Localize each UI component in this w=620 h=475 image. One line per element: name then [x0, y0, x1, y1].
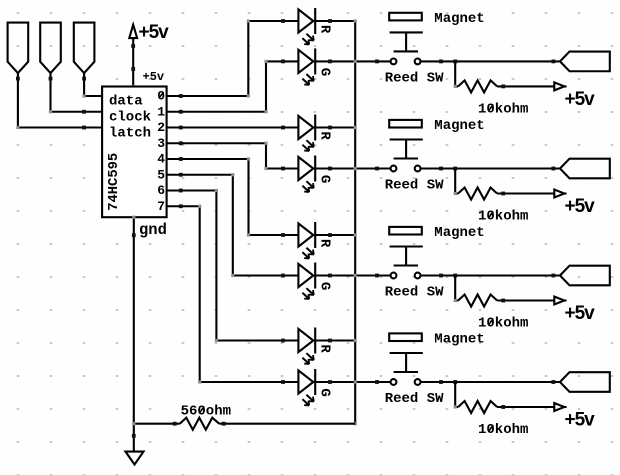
wire +5v supply to IC: [132, 26, 134, 87]
svg-text:Reed SW: Reed SW: [385, 285, 444, 301]
corner node: [264, 60, 267, 63]
connector P1 (output): [560, 52, 610, 72]
svg-text:6: 6: [157, 183, 165, 198]
junction resistor R4 lead: [501, 405, 505, 409]
junction pullup tap 2: [453, 167, 457, 171]
junction J1 lead: [16, 77, 20, 81]
svg-text:10kohm: 10kohm: [478, 101, 528, 117]
svg-text:10kohm: 10kohm: [478, 422, 528, 438]
wire LED cathode row 5: [315, 274, 390, 276]
LED D1R (R LED): [298, 8, 332, 45]
svg-text:5: 5: [157, 167, 165, 182]
junction pin 3 stub: [179, 141, 183, 145]
svg-text:G: G: [317, 68, 333, 76]
svg-text:Magnet: Magnet: [434, 332, 484, 348]
wire pin6 to LED R4: [167, 191, 299, 341]
wire LED cathode row 6: [315, 339, 355, 341]
junction connector lead 2: [552, 167, 556, 171]
connector J2 (input header pin): [40, 23, 61, 74]
svg-text:Reed SW: Reed SW: [385, 178, 444, 194]
svg-text:10kohm: 10kohm: [478, 209, 528, 225]
wire LED cathode row 3: [315, 167, 390, 169]
reed switch SW4 actuator: [390, 353, 423, 372]
svg-text:+5v: +5v: [143, 70, 165, 84]
LED D3R (R LED): [298, 222, 332, 259]
corner node data wire: [83, 94, 86, 97]
resistor R2 10kohm: [458, 188, 497, 200]
node bus row 3: [354, 167, 357, 170]
wire pullup branch 4: [455, 382, 458, 407]
junction 560 left lead: [173, 422, 177, 426]
magnet symbol M3: [389, 227, 422, 235]
svg-text:74HC595: 74HC595: [106, 153, 122, 211]
corner node: [231, 173, 234, 176]
slash of zero in 560ohm: [200, 407, 205, 414]
svg-text:560ohm: 560ohm: [181, 404, 231, 420]
svg-text:data: data: [109, 94, 143, 110]
wire reed SW3 to connector: [421, 274, 561, 276]
junction LED anode lead 3: [281, 167, 285, 171]
wire LED cathode row 2: [315, 126, 355, 128]
junction connector lead 3: [552, 274, 556, 278]
node bus row 1: [354, 60, 357, 63]
node +5v at IC top: [132, 85, 135, 88]
corner node: [264, 110, 267, 113]
node bus row 6: [354, 339, 357, 342]
junction pin 0 stub: [179, 94, 183, 98]
svg-text:2: 2: [157, 120, 165, 135]
wire pin0 to LED R1: [167, 21, 299, 96]
junction on gnd wire: [132, 434, 136, 438]
junction pin 4 stub: [179, 157, 183, 161]
corner node: [215, 189, 218, 192]
wire pullup branch 2: [455, 169, 458, 194]
corner node clock wire: [49, 110, 52, 113]
svg-text:Magnet: Magnet: [434, 225, 484, 241]
corner node: [247, 157, 250, 160]
junction LED anode lead 2: [281, 126, 285, 130]
wire gnd run to bus: [134, 423, 180, 425]
junction pin 5 stub: [179, 173, 183, 177]
wire LED bus (cathode rail): [354, 21, 356, 424]
corner pullup branch 4: [454, 405, 457, 408]
wire resistor R4 to +5v: [497, 406, 566, 408]
junction LED anode lead 0: [281, 19, 285, 23]
junction 560 right lead: [222, 422, 226, 426]
magnet symbol M4: [389, 333, 422, 341]
junction LED anode lead 1: [281, 60, 285, 64]
junction LED cathode lead 7: [328, 380, 332, 384]
wire pullup branch 3: [455, 276, 458, 301]
LED D4R (R LED): [298, 328, 332, 365]
node gnd at IC bottom: [132, 216, 135, 219]
ground symbol: [126, 452, 144, 465]
corner node: [198, 380, 201, 383]
junction pullup tap 1: [453, 60, 457, 64]
junction LED cathode lead 1: [328, 60, 332, 64]
slash of zero in 10kohm 3: [489, 319, 494, 326]
connector P2 (output): [560, 159, 610, 179]
svg-text:4: 4: [157, 152, 165, 167]
svg-text:Magnet: Magnet: [434, 11, 484, 27]
svg-text:+5v: +5v: [565, 89, 596, 110]
junction LED cathode lead 3: [328, 167, 332, 171]
svg-text:+5v: +5v: [139, 22, 170, 43]
junction LED cathode lead 6: [328, 339, 332, 343]
slash of zero in 10kohm 2: [489, 212, 494, 219]
junction LED anode lead 6: [281, 339, 285, 343]
junction connector lead 4: [552, 380, 556, 384]
corner node: [247, 94, 250, 97]
node bus row 5: [354, 274, 357, 277]
power symbol +5v arrow 2: [554, 190, 564, 198]
junction LED cathode lead 4: [328, 233, 332, 237]
svg-text:+5v: +5v: [565, 410, 596, 431]
wire pullup branch 1: [455, 61, 458, 86]
junction reed left lead 1: [375, 60, 379, 64]
corner node: [198, 205, 201, 208]
junction LED anode lead 7: [281, 380, 285, 384]
wire pin7 to LED G4: [167, 206, 299, 382]
junction reed left lead 4: [375, 380, 379, 384]
magnet symbol M1: [389, 13, 422, 21]
node bus bottom corner: [354, 422, 357, 425]
reed switch SW3 contacts: [391, 273, 421, 279]
LED D1G (G LED): [298, 48, 332, 85]
connector P4 (output): [560, 372, 610, 392]
wire LED cathode row 7: [315, 381, 390, 383]
svg-text:G: G: [317, 175, 333, 183]
junction pin 6 stub: [179, 189, 183, 193]
junction pullup tap 3: [453, 274, 457, 278]
corner node: [247, 233, 250, 236]
corner node: [264, 142, 267, 145]
corner gnd run: [132, 422, 135, 425]
node bus row 2: [354, 126, 357, 129]
junction pullup tap 4: [453, 380, 457, 384]
wire reed SW4 to connector: [421, 381, 561, 383]
resistor R1 10kohm: [458, 80, 497, 92]
svg-text:Reed SW: Reed SW: [385, 70, 444, 86]
wire reed SW2 to connector: [421, 167, 561, 169]
corner node: [231, 274, 234, 277]
junction reed right lead 2: [439, 167, 443, 171]
junction J2 lead: [49, 77, 53, 81]
power symbol +5v arrow 4: [554, 403, 564, 411]
wire clock: J2 to IC clock pin: [51, 73, 103, 112]
wire pin4 to LED R3: [167, 159, 299, 235]
wire pin3 to LED G2: [167, 143, 299, 168]
junction pin 2 stub: [179, 126, 183, 130]
connector P3 (output): [560, 266, 610, 286]
junction resistor R3 lead: [501, 299, 505, 303]
svg-text:latch: latch: [109, 126, 151, 142]
svg-text:G: G: [317, 388, 333, 396]
wire pin5 to LED G3: [167, 175, 299, 276]
magnet symbol M2: [389, 120, 422, 128]
junction pin 7 stub: [179, 204, 183, 208]
wire LED cathode row 0: [315, 20, 355, 22]
svg-text:G: G: [317, 282, 333, 290]
junction pin 1 stub: [179, 110, 183, 114]
LED D2R (R LED): [298, 115, 332, 152]
corner node: [247, 19, 250, 22]
corner pullup branch 2: [454, 192, 457, 195]
svg-text:gnd: gnd: [139, 221, 167, 239]
resistor R4 10kohm: [458, 401, 497, 413]
junction J3 lead: [82, 77, 86, 81]
node bus row 0: [354, 19, 357, 22]
reed switch SW3 actuator: [390, 247, 423, 266]
junction clock wire segment: [82, 110, 86, 114]
slash of zero in 10kohm 4: [489, 425, 494, 432]
corner pullup branch 1: [454, 85, 457, 88]
reed switch SW1 contacts: [391, 59, 421, 65]
svg-text:R: R: [317, 344, 333, 353]
wire pin2 to LED R2: [167, 126, 299, 128]
svg-text:R: R: [317, 239, 333, 248]
junction LED cathode lead 2: [328, 126, 332, 130]
node bus row 7: [354, 380, 357, 383]
wire pin1 to LED G1: [167, 61, 299, 111]
junction reed right lead 1: [439, 60, 443, 64]
junction connector lead 1: [552, 60, 556, 64]
power symbol +5v arrow 1: [554, 82, 564, 90]
junction reed left lead 3: [375, 274, 379, 278]
svg-text:10kohm: 10kohm: [478, 316, 528, 332]
junction latch wire segment: [82, 126, 86, 130]
corner node: [264, 167, 267, 170]
svg-text:3: 3: [157, 136, 165, 151]
wire IC gnd: [133, 217, 135, 451]
node bus row 4: [354, 233, 357, 236]
junction resistor R1 lead: [501, 85, 505, 89]
svg-text:1: 1: [157, 104, 165, 119]
wire 560 to LED bus: [219, 423, 355, 425]
svg-text:+5v: +5v: [565, 303, 596, 324]
junction LED anode lead 4: [281, 233, 285, 237]
junction reed right lead 3: [439, 274, 443, 278]
corner pullup branch 3: [454, 299, 457, 302]
resistor R3 10kohm: [458, 295, 497, 307]
wire resistor R3 to +5v: [497, 299, 566, 301]
svg-text:7: 7: [157, 199, 165, 214]
wire latch: J1 to IC latch pin: [18, 73, 102, 127]
junction resistor R2 lead: [501, 192, 505, 196]
svg-text:clock: clock: [109, 110, 151, 126]
svg-text:+5v: +5v: [565, 196, 596, 217]
junction reed left lead 2: [375, 167, 379, 171]
svg-text:R: R: [317, 131, 333, 140]
connector J3 (input header pin): [74, 23, 95, 74]
connector J1 (input header pin): [8, 23, 29, 74]
wire LED cathode row 1: [315, 60, 390, 62]
label 74HC595: [106, 153, 122, 211]
junction reed right lead 4: [439, 380, 443, 384]
svg-text:R: R: [317, 25, 333, 34]
reed switch SW1 actuator: [390, 32, 423, 51]
wire reed SW1 to connector: [421, 60, 561, 62]
wire data: J3 to IC data pin: [84, 73, 102, 96]
junction on +5v wire b: [131, 67, 135, 71]
wire resistor R1 to +5v: [497, 85, 566, 87]
slash of zero in pin 0 digit: [159, 92, 164, 99]
op IC U1 74HC595 body: [102, 87, 167, 218]
junction LED anode lead 5: [281, 274, 285, 278]
wire LED cathode row 4: [315, 234, 355, 236]
corner node: [215, 339, 218, 342]
reed switch SW2 contacts: [391, 166, 421, 172]
svg-text:Magnet: Magnet: [434, 118, 484, 134]
LED D4G (G LED): [298, 369, 332, 406]
junction on +5v wire a: [131, 44, 135, 48]
LED D2G (G LED): [298, 156, 332, 193]
power symbol +5v arrow 3: [554, 297, 564, 305]
junction LED cathode lead 5: [328, 274, 332, 278]
reed switch SW2 actuator: [390, 140, 423, 159]
junction gnd stub: [132, 233, 136, 237]
LED D3G (G LED): [298, 263, 332, 300]
reed switch SW4 contacts: [391, 379, 421, 385]
wire resistor R2 to +5v: [497, 192, 566, 194]
corner node latch wire: [16, 126, 19, 129]
junction LED cathode lead 0: [328, 19, 332, 23]
power symbol +5v (arrow up): [129, 25, 137, 38]
slash of zero in 10kohm 1: [489, 104, 494, 111]
svg-text:Reed SW: Reed SW: [385, 391, 444, 407]
resistor R5 560ohm: [180, 418, 219, 430]
